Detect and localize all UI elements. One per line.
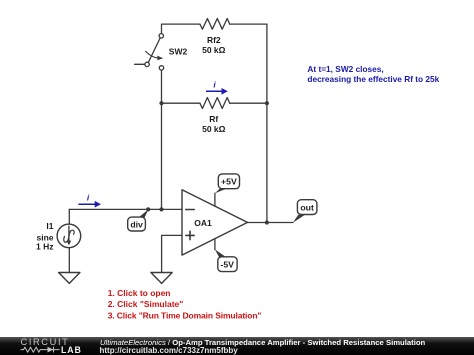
- flag div: [128, 209, 149, 231]
- wire I1 top lead: [68, 209, 70, 224]
- wire top-right lead: [230, 23, 267, 25]
- svg-text:Rf2: Rf2: [207, 35, 221, 45]
- switch SW2 throw terminal: [145, 62, 149, 66]
- svg-text:out: out: [300, 202, 314, 212]
- svg-text:At t=1, SW2 closes,: At t=1, SW2 closes,: [307, 64, 383, 74]
- current arrow i at Rf: [206, 80, 228, 95]
- ground I1 triangle: [59, 273, 80, 284]
- switch SW2 arc arrowhead: [157, 56, 163, 61]
- svg-text:I1: I1: [46, 221, 53, 231]
- op-amp OA1 triangle: [182, 190, 248, 255]
- wire Rf left lead: [162, 102, 200, 104]
- switch SW2 top terminal: [159, 34, 163, 38]
- wire right vertical: [266, 24, 268, 222]
- svg-text:2. Click "Simulate": 2. Click "Simulate": [108, 299, 184, 309]
- svg-text:Rf: Rf: [209, 114, 218, 124]
- wire output: [248, 222, 294, 224]
- op-amp V+ pin stub: [214, 193, 216, 206]
- op-amp OA1 minus sign: [186, 209, 194, 211]
- current arrow i at input: [78, 192, 101, 207]
- wire switch to junction: [161, 70, 163, 103]
- junction dot switch-Rf: [159, 101, 163, 105]
- svg-text:3. Click "Run Time Domain Simu: 3. Click "Run Time Domain Simulation": [108, 311, 262, 321]
- svg-text:-5V: -5V: [220, 259, 234, 269]
- footer logo diode: [42, 347, 60, 353]
- resistor R Rf zigzag: [200, 98, 230, 109]
- svg-text:SW2: SW2: [169, 47, 188, 57]
- ground op-amp triangle: [151, 273, 172, 284]
- current source I1 arrow shaft: [68, 226, 70, 242]
- wire plus input stub: [162, 235, 182, 272]
- switch SW2 throw stub: [135, 63, 145, 65]
- svg-text:50 kΩ: 50 kΩ: [202, 124, 226, 134]
- footer bar: [0, 337, 474, 355]
- switch SW2 blade: [148, 38, 160, 63]
- svg-text:decreasing the effective Rf to: decreasing the effective Rf to 25k: [307, 74, 439, 84]
- flag out: [293, 200, 317, 223]
- svg-text:LAB: LAB: [61, 345, 82, 355]
- junction dot feedback input: [159, 207, 163, 211]
- switch SW2 bottom terminal: [159, 66, 163, 70]
- wire top-left stub to switch: [162, 24, 200, 33]
- junction dot output: [265, 220, 269, 224]
- op-amp OA1 plus sign: [186, 231, 194, 239]
- wire I1 bottom lead: [68, 248, 70, 273]
- svg-text:1 Hz: 1 Hz: [36, 242, 53, 252]
- svg-text:50 kΩ: 50 kΩ: [202, 45, 226, 55]
- wire Rf right lead: [230, 102, 267, 104]
- svg-text:http://circuitlab.com/c733z7nm: http://circuitlab.com/c733z7nm5fbby: [100, 346, 239, 355]
- flag +5V: [215, 174, 240, 193]
- svg-text:+5V: +5V: [221, 177, 237, 187]
- svg-text:div: div: [130, 219, 143, 229]
- wire input horizontal: [69, 208, 182, 210]
- svg-text:OA1: OA1: [194, 218, 212, 228]
- op-amp V- pin stub: [214, 239, 216, 250]
- junction dot Rf right: [265, 101, 269, 105]
- current source I1 arrowhead: [67, 241, 72, 246]
- resistor R Rf2 zigzag: [200, 19, 230, 30]
- svg-text:1. Click to open: 1. Click to open: [108, 288, 171, 298]
- switch SW2 actuation arc: [146, 51, 159, 58]
- junction dot div: [146, 207, 150, 211]
- current source I1 circle: [57, 224, 81, 248]
- wire feedback vertical: [161, 103, 163, 209]
- footer logo resistor zigzag: [21, 347, 42, 352]
- flag -5V: [215, 249, 237, 271]
- current source I1 sine symbol: [64, 230, 74, 242]
